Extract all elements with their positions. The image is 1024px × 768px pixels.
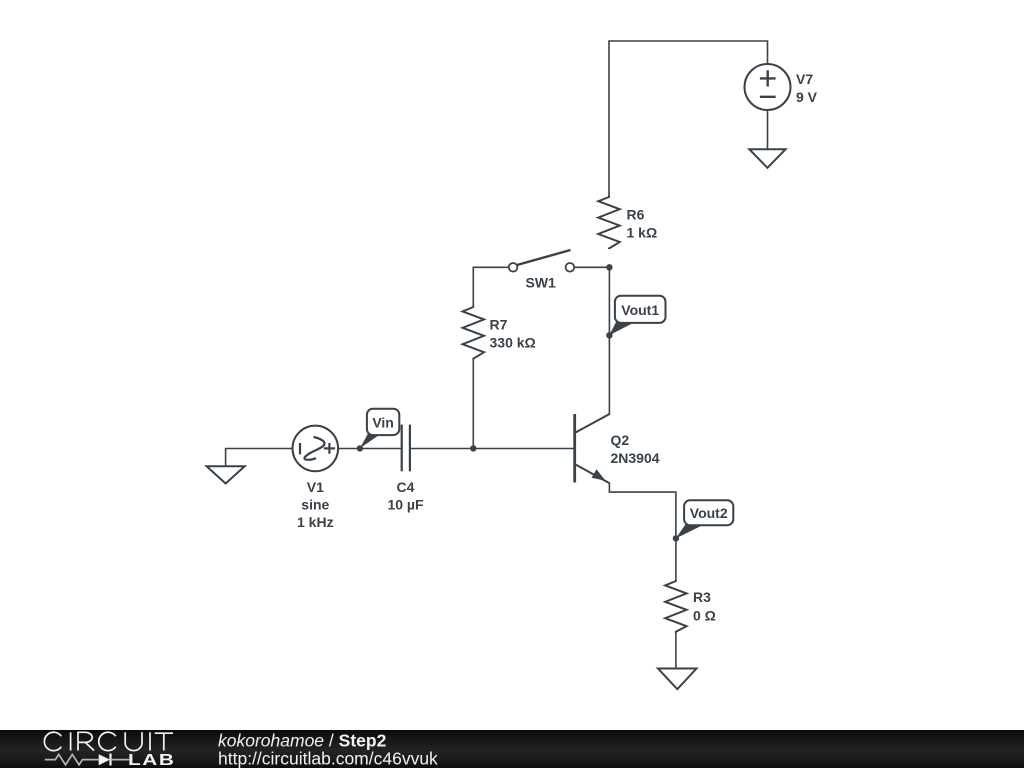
wire V1 to C4: [338, 448, 401, 450]
label R6 1kohm: [627, 207, 658, 241]
label Q2 2N3904: [611, 432, 660, 466]
net label Vin: [360, 409, 399, 449]
wire V7 to ground: [767, 110, 769, 149]
label R3 0ohm: [693, 589, 716, 624]
svg-text:10 µF: 10 µF: [387, 497, 424, 513]
CircuitLab logo CIRCUIT: [44, 732, 173, 750]
wire C4 to base: [411, 448, 575, 450]
node (R6/SW1/collector): [606, 264, 612, 270]
node (Vout1): [606, 332, 612, 338]
wire top rail: [609, 41, 768, 196]
svg-text:2N3904: 2N3904: [611, 450, 660, 466]
resistor R7: [463, 306, 484, 360]
label C4 10uF: [387, 479, 424, 513]
node (Vin): [357, 445, 363, 451]
svg-text:1 kHz: 1 kHz: [297, 514, 334, 530]
CircuitLab logo resistor-diode glyph: [45, 754, 129, 766]
svg-text:0 Ω: 0 Ω: [693, 608, 716, 624]
transistor Q2: [575, 414, 610, 483]
svg-text:sine: sine: [301, 497, 329, 513]
footer bar: [0, 730, 1024, 768]
svg-text:R3: R3: [693, 589, 711, 605]
svg-text:kokorohamoe / Step2: kokorohamoe / Step2: [218, 731, 387, 751]
label V1 sine 1kHz: [297, 479, 334, 530]
net label Vout2: [676, 500, 733, 538]
resistor R3: [665, 580, 686, 633]
wire emitter net: [609, 483, 676, 580]
wire R3 to ground: [675, 632, 677, 669]
resistor R6: [598, 196, 619, 250]
node (Vout2): [673, 535, 679, 541]
ground (V7): [749, 149, 785, 168]
svg-text:9 V: 9 V: [796, 89, 818, 105]
svg-text:LAB: LAB: [128, 750, 175, 768]
ground (input): [207, 466, 245, 483]
svg-text:R7: R7: [490, 317, 508, 333]
svg-text:SW1: SW1: [526, 275, 557, 291]
switch SW1: [509, 250, 574, 272]
label R7 330kohm: [490, 317, 536, 351]
svg-text:1 kΩ: 1 kΩ: [627, 225, 658, 241]
svg-text:V1: V1: [307, 479, 324, 495]
label V7 9V: [796, 71, 818, 105]
wire switch left lead: [473, 267, 509, 306]
svg-text:http://circuitlab.com/c46vvuk: http://circuitlab.com/c46vvuk: [218, 749, 438, 768]
svg-text:Vout1: Vout1: [621, 302, 659, 318]
voltage source V7: [745, 64, 791, 110]
wire input ground stub: [226, 449, 293, 467]
svg-text:Vout2: Vout2: [690, 505, 728, 521]
net label Vout1: [609, 296, 665, 336]
wire collector net: [608, 267, 610, 414]
svg-text:R6: R6: [627, 207, 645, 223]
svg-text:Q2: Q2: [611, 432, 630, 448]
node (base junction): [470, 445, 476, 451]
svg-text:V7: V7: [796, 71, 813, 87]
voltage source V1: [293, 426, 339, 472]
capacitor C4: [402, 425, 410, 472]
wire R7 bottom: [472, 359, 474, 449]
ground (output): [658, 669, 697, 690]
svg-text:C4: C4: [397, 479, 415, 495]
wire switch right to node: [574, 266, 609, 268]
svg-text:330 kΩ: 330 kΩ: [490, 335, 536, 351]
svg-text:Vin: Vin: [372, 415, 394, 431]
